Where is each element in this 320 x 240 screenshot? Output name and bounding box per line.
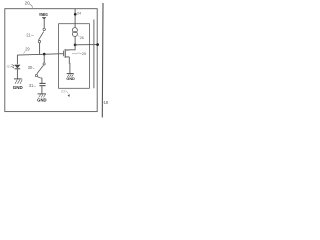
output node dot (74, 44, 77, 47)
supply VNEG (39, 12, 48, 20)
wire VNEG to switch 21 (43, 20, 45, 28)
vertical line right of inner box (93, 19, 95, 88)
photodiode PD (15, 65, 21, 69)
wire top border to current source (74, 9, 76, 28)
label 26 (78, 35, 84, 40)
capacitor 31 (39, 83, 45, 85)
column line 18 (101, 3, 104, 118)
node wire (horizontal) (17, 54, 63, 55)
switch 21 (38, 28, 45, 43)
wire current source to output node (74, 37, 76, 46)
label 22 (61, 88, 70, 97)
border junction dot (96, 43, 99, 46)
wire node to switch 30 (43, 54, 45, 63)
label 20 (25, 0, 33, 7)
source wire to ground (68, 57, 71, 74)
label 25 (72, 51, 86, 56)
ground (right, in box) (66, 74, 75, 82)
current source 26 (72, 28, 77, 37)
svg-text:GND: GND (37, 98, 46, 103)
svg-text:18: 18 (104, 100, 108, 105)
ground (middle) (37, 94, 46, 103)
wire capacitor 31 to ground (41, 86, 43, 93)
output wire to border (75, 44, 98, 46)
wire corner to photodiode (16, 55, 19, 64)
svg-text:22: 22 (61, 88, 66, 93)
svg-text:30: 30 (28, 65, 33, 70)
svg-text:VNEG: VNEG (39, 12, 48, 17)
switch 30 (35, 63, 45, 78)
outer box 20 (5, 9, 97, 112)
light arrows into PD (11, 64, 15, 68)
wire switch 30 to capacitor 31 (41, 78, 43, 83)
svg-text:GND: GND (13, 85, 23, 90)
transistor 25 (64, 49, 70, 58)
drain wire to transistor 25 (66, 45, 75, 50)
inner box 22 (59, 24, 90, 89)
label 24 (77, 10, 82, 15)
label PD (7, 64, 13, 69)
svg-text:31: 31 (29, 83, 34, 88)
label 29 (24, 46, 31, 53)
svg-text:PD: PD (7, 64, 11, 69)
svg-text:25: 25 (82, 51, 86, 56)
wire photodiode to ground (16, 69, 18, 78)
svg-text:20: 20 (25, 0, 31, 5)
svg-text:29: 29 (25, 46, 30, 51)
ground (left) (13, 79, 23, 90)
label 31 (29, 83, 36, 88)
svg-text:21: 21 (26, 33, 31, 38)
svg-text:GND: GND (66, 76, 75, 81)
label 18 (102, 100, 108, 105)
node 24 dot (74, 13, 77, 16)
svg-text:26: 26 (80, 35, 84, 40)
label 30 (28, 65, 35, 70)
wire switch 21 to node (39, 43, 41, 55)
label 21 (26, 33, 33, 38)
junction dot node A (43, 53, 46, 56)
